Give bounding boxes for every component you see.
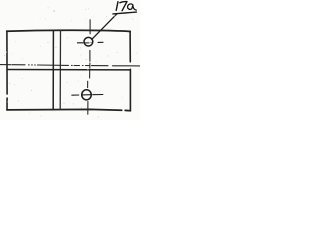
rectangle body top edge	[7, 30, 130, 31]
interior vertical line (left)	[52, 31, 54, 110]
paper background	[0, 0, 140, 120]
interior vertical line (right)	[59, 31, 61, 110]
paper specks	[4, 7, 137, 117]
top circle center dash and speck	[84, 41, 91, 44]
vertical dash-dot centerline	[88, 20, 91, 114]
rectangle body bottom edge	[7, 109, 130, 110]
rectangle body right edge	[129, 31, 131, 110]
circle hole (bottom)	[82, 90, 92, 100]
label underline	[113, 12, 136, 14]
rectangle body left edge	[6, 31, 8, 110]
top circle crosshair horizontal	[77, 41, 103, 44]
leader line to label 17a	[92, 14, 117, 40]
interior horizontal division line	[7, 69, 130, 71]
circle hole 17a (top)	[84, 37, 93, 46]
bottom circle crosshair horizontal	[71, 94, 103, 97]
label text: digit 1	[116, 2, 118, 11]
label text: digit 7	[120, 2, 127, 11]
label text: letter a	[128, 4, 137, 10]
horizontal dash-dot centerline	[0, 65, 140, 66]
